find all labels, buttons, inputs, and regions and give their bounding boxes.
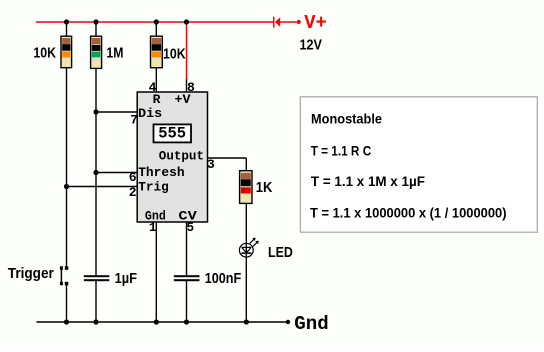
svg-text:10K: 10K bbox=[163, 46, 186, 63]
svg-text:Thresh: Thresh bbox=[138, 165, 185, 180]
svg-text:7: 7 bbox=[130, 112, 138, 127]
svg-text:Gnd: Gnd bbox=[294, 313, 328, 335]
svg-text:1: 1 bbox=[149, 220, 157, 235]
svg-text:2: 2 bbox=[129, 185, 137, 200]
svg-text:1M: 1M bbox=[106, 45, 123, 62]
svg-text:V+: V+ bbox=[304, 12, 327, 34]
svg-text:555: 555 bbox=[158, 125, 186, 143]
svg-text:4: 4 bbox=[149, 80, 157, 95]
svg-text:T = 1.1 x 1000000 x (1 / 10000: T = 1.1 x 1000000 x (1 / 1000000) bbox=[310, 204, 507, 220]
svg-text:100nF: 100nF bbox=[205, 270, 242, 287]
svg-text:12V: 12V bbox=[300, 37, 323, 54]
svg-text:3: 3 bbox=[207, 157, 215, 172]
svg-text:1K: 1K bbox=[256, 179, 273, 196]
svg-text:5: 5 bbox=[186, 220, 194, 235]
svg-text:Monostable: Monostable bbox=[311, 111, 382, 127]
svg-text:T = 1.1 x 1M x 1µF: T = 1.1 x 1M x 1µF bbox=[311, 173, 425, 189]
svg-text:10K: 10K bbox=[33, 45, 56, 62]
svg-text:8: 8 bbox=[187, 80, 195, 95]
svg-text:Trigger: Trigger bbox=[8, 265, 54, 282]
svg-text:Trig: Trig bbox=[138, 179, 169, 194]
svg-text:Output: Output bbox=[159, 149, 204, 164]
svg-text:T = 1.1 R C: T = 1.1 R C bbox=[311, 143, 372, 159]
svg-text:LED: LED bbox=[268, 244, 293, 261]
svg-text:Dis: Dis bbox=[138, 106, 162, 121]
svg-text:6: 6 bbox=[129, 170, 137, 185]
svg-text:1µF: 1µF bbox=[115, 270, 137, 287]
